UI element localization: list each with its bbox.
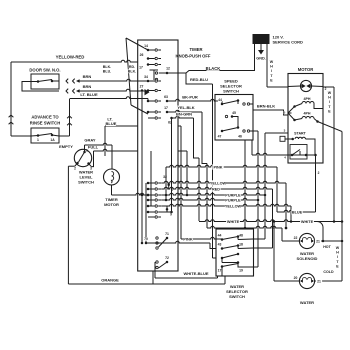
wire (318, 122, 343, 132)
timer contact (148, 216, 155, 218)
svg-text:HOT: HOT (323, 245, 331, 249)
motor centrifugal switch (290, 145, 307, 160)
node BLK BLU label (103, 65, 112, 69)
svg-text:PINK: PINK (213, 166, 222, 170)
wire PURPLE 2 (161, 198, 258, 200)
timer block (138, 40, 178, 271)
svg-text:PURPLE: PURPLE (225, 194, 241, 198)
svg-text:1: 1 (37, 138, 39, 142)
switch door SW N.O. (31, 74, 59, 89)
svg-text:SWITCH: SWITCH (223, 89, 239, 94)
wire (22, 82, 59, 92)
wire (84, 145, 86, 149)
svg-text:17: 17 (218, 269, 222, 273)
wire (171, 118, 173, 211)
svg-text:BLK.: BLK. (128, 70, 136, 74)
wire (290, 206, 292, 222)
svg-text:WHITE: WHITE (227, 220, 240, 224)
wire (77, 79, 148, 81)
svg-text:PINK: PINK (183, 237, 193, 242)
solenoid cold water (299, 273, 314, 288)
svg-text:20: 20 (294, 276, 298, 280)
motor thermal protector (300, 80, 311, 91)
motor winding 4PH 2 (304, 111, 311, 115)
svg-text:12: 12 (166, 67, 170, 71)
timer contact (147, 199, 150, 202)
wire (202, 112, 207, 164)
svg-text:W: W (328, 91, 332, 95)
svg-text:SWITCH: SWITCH (78, 180, 94, 185)
svg-text:18: 18 (239, 243, 243, 247)
svg-text:YELLOW-RED: YELLOW-RED (56, 55, 85, 60)
svg-text:4PH: 4PH (304, 112, 311, 116)
motor timer motor (111, 145, 113, 169)
wire WHITE-BLUE (154, 262, 156, 278)
svg-text:ADVANCE TO: ADVANCE TO (31, 115, 59, 120)
wire (145, 183, 147, 243)
switch water selector (216, 229, 254, 276)
node connector BRN (66, 79, 68, 84)
wire RED (161, 187, 272, 189)
svg-text:W: W (336, 246, 340, 250)
wire (272, 189, 274, 248)
wire (141, 91, 143, 244)
svg-text:I: I (271, 69, 272, 73)
wire (105, 125, 138, 127)
wire (265, 132, 288, 134)
svg-text:BLUE: BLUE (106, 121, 117, 126)
wire BLUE (277, 210, 311, 212)
wire (323, 86, 334, 88)
svg-text:YELLOW: YELLOW (225, 205, 242, 209)
timer contact 12 (166, 67, 170, 71)
timer contact 17b (164, 106, 168, 110)
timer contact 71 (165, 232, 169, 236)
wire (266, 44, 268, 87)
svg-text:BN-GRN: BN-GRN (176, 112, 192, 117)
svg-text:RED-BLU: RED-BLU (190, 77, 208, 82)
wire (167, 99, 222, 101)
svg-text:71: 71 (165, 232, 169, 236)
timer contact 17 (139, 66, 143, 70)
motor winding 4PH (304, 97, 311, 101)
wire (69, 99, 71, 137)
wire (11, 60, 138, 62)
svg-text:45: 45 (232, 111, 236, 115)
wire (288, 154, 292, 156)
svg-text:2: 2 (318, 171, 320, 175)
svg-text:I: I (329, 100, 330, 104)
wire (152, 271, 154, 284)
wire PINK (166, 165, 277, 167)
svg-text:63: 63 (164, 95, 168, 99)
wire (285, 183, 287, 228)
timer cam lever (126, 38, 131, 105)
wire YELLOW 2 (161, 204, 291, 206)
svg-text:WHITE-BLUE: WHITE-BLUE (183, 271, 208, 276)
timer contact 7 (147, 188, 150, 191)
svg-text:WATER: WATER (300, 300, 314, 305)
wire WHITE 2 (207, 226, 282, 228)
timer contact (147, 63, 150, 66)
svg-text:44: 44 (218, 98, 222, 102)
timer contact 32 (163, 175, 167, 179)
timer contact (147, 211, 150, 214)
svg-text:RINSE SWITCH: RINSE SWITCH (30, 121, 60, 126)
svg-text:WHITE: WHITE (301, 220, 314, 224)
svg-text:2: 2 (74, 167, 76, 171)
timer contact 63 (147, 99, 149, 102)
wire WHITE (199, 220, 342, 222)
wire (167, 44, 255, 73)
svg-text:EMPTY: EMPTY (59, 144, 73, 149)
timer contact (147, 194, 150, 197)
timer contact 26 (139, 53, 143, 57)
svg-text:COLD: COLD (323, 270, 334, 274)
svg-text:H: H (336, 251, 339, 255)
wire (178, 150, 188, 152)
svg-text:BRN-BLK: BRN-BLK (257, 104, 275, 109)
power 120V service cord (253, 34, 270, 44)
svg-text:46: 46 (238, 135, 242, 139)
wire (59, 135, 70, 137)
wire (172, 116, 194, 118)
svg-text:SOLENOID: SOLENOID (297, 256, 318, 261)
timer contact 62 (148, 117, 155, 119)
svg-text:I: I (337, 255, 338, 259)
motor pin 5 contact (293, 105, 296, 108)
svg-text:H: H (270, 65, 273, 69)
svg-text:BRN: BRN (83, 74, 92, 79)
timer contact 70 (144, 237, 148, 241)
svg-text:BLUE: BLUE (292, 211, 303, 215)
node connector BRN (66, 89, 68, 94)
svg-text:2: 2 (325, 87, 327, 91)
svg-text:14: 14 (144, 44, 148, 48)
svg-text:GND.: GND. (256, 57, 266, 61)
wire (253, 130, 258, 132)
svg-text:27: 27 (140, 85, 144, 89)
wire ORANGE (68, 283, 225, 285)
svg-text:MOTOR: MOTOR (298, 67, 314, 72)
wire (341, 132, 343, 282)
svg-text:SWITCH: SWITCH (229, 294, 245, 299)
wire YELLOW (161, 181, 286, 183)
switch advance to rinse (31, 128, 59, 143)
timer contact 34 (144, 75, 148, 79)
svg-text:MOTOR: MOTOR (104, 202, 119, 207)
wire (11, 135, 31, 137)
wire (91, 151, 93, 167)
wire (150, 151, 152, 206)
svg-text:YELLOW: YELLOW (210, 182, 227, 186)
wire (244, 140, 246, 228)
svg-text:44: 44 (218, 234, 222, 238)
svg-text:LT. BLUE: LT. BLUE (80, 92, 98, 97)
timer contact 14 (144, 44, 148, 48)
svg-text:72: 72 (165, 256, 169, 260)
svg-text:BLK.: BLK. (103, 65, 111, 69)
wire (178, 125, 182, 127)
node RD BLK label (129, 65, 136, 69)
svg-text:43: 43 (218, 243, 222, 247)
wire (10, 62, 12, 136)
svg-text:BK-PUR: BK-PUR (182, 95, 198, 100)
wire (70, 97, 148, 99)
timer contact 72 (165, 256, 169, 260)
svg-text:RED: RED (212, 188, 220, 192)
wire (276, 167, 278, 212)
svg-text:W: W (270, 60, 274, 64)
wire (167, 110, 202, 112)
svg-text:YEL-BLK: YEL-BLK (177, 105, 194, 110)
timer contact 27 (139, 85, 143, 89)
svg-text:KNOB-PUSH OFF: KNOB-PUSH OFF (176, 54, 211, 59)
svg-text:START: START (294, 132, 307, 136)
svg-text:19: 19 (239, 269, 243, 273)
svg-text:17: 17 (164, 106, 168, 110)
wire (212, 84, 214, 258)
svg-text:BLACK: BLACK (206, 66, 221, 71)
svg-text:48: 48 (239, 234, 243, 238)
svg-text:22: 22 (294, 236, 298, 240)
svg-text:H: H (328, 96, 331, 100)
wire (317, 222, 323, 242)
svg-text:47: 47 (218, 135, 222, 139)
switch water level SW (74, 149, 91, 166)
svg-text:BLU.: BLU. (103, 70, 111, 74)
wire (186, 73, 213, 84)
motor start winding (294, 131, 305, 135)
wire (68, 165, 74, 167)
svg-text:70: 70 (144, 237, 148, 241)
svg-text:TIMER: TIMER (189, 47, 202, 52)
wire (251, 140, 253, 155)
svg-text:PURPLE: PURPLE (225, 199, 241, 203)
svg-text:21: 21 (317, 280, 321, 284)
wire (315, 155, 317, 212)
svg-text:17: 17 (139, 66, 143, 70)
svg-text:21: 21 (316, 240, 320, 244)
svg-text:34: 34 (144, 75, 148, 79)
node connector (9, 115, 14, 117)
wire PURPLE (161, 193, 265, 195)
svg-text:DOOR SW. N.O.: DOOR SW. N.O. (29, 68, 60, 73)
solenoid hot water (299, 233, 314, 248)
svg-text:1A: 1A (50, 138, 55, 142)
svg-text:1: 1 (86, 149, 88, 153)
wire (77, 89, 148, 91)
ground (260, 44, 262, 50)
timer contact 9 (147, 205, 150, 208)
svg-text:ORANGE: ORANGE (101, 278, 119, 283)
svg-text:4PH: 4PH (304, 97, 311, 101)
svg-text:26: 26 (140, 53, 144, 57)
wire PINK timer to water selector (146, 241, 210, 243)
node connector (67, 116, 72, 118)
wire (253, 110, 288, 115)
wire (281, 228, 283, 241)
wire (111, 185, 113, 195)
svg-text:SERVICE CORD: SERVICE CORD (273, 40, 303, 45)
wire (194, 118, 200, 158)
svg-text:BRN: BRN (83, 84, 92, 89)
wire (273, 222, 275, 282)
svg-text:GRAY: GRAY (84, 138, 96, 143)
svg-text:RD.: RD. (129, 65, 135, 69)
wire 32 bus (165, 167, 167, 200)
